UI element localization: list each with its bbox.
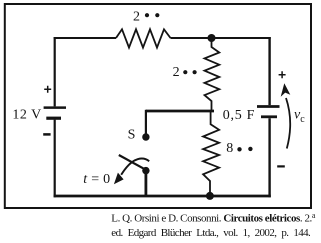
label R3 dots xyxy=(237,147,241,151)
svg-text:2: 2 xyxy=(133,10,140,25)
capacitor C1 plate short xyxy=(261,115,277,118)
vc arrow curve xyxy=(286,98,290,149)
switch blade xyxy=(119,155,146,170)
wire left upper xyxy=(54,37,56,106)
svg-text:12 V: 12 V xyxy=(12,107,41,122)
wire switch to bottom xyxy=(144,171,147,197)
svg-text:c: c xyxy=(300,114,305,125)
wire right lower xyxy=(268,118,270,197)
svg-text:L. Q. Orsini e D. Consonni. Ci: L. Q. Orsini e D. Consonni. Circuitos el… xyxy=(111,211,316,225)
battery minus sign xyxy=(43,133,50,136)
wire bottom xyxy=(54,195,271,198)
svg-text:t = 0: t = 0 xyxy=(83,172,110,187)
svg-text:ed. Edgard Blücher Ltda., vol.: ed. Edgard Blücher Ltda., vol. 1, 2002, … xyxy=(111,227,311,239)
resistor R1 (2 ohm, top) xyxy=(116,29,171,47)
battery V1 plate short xyxy=(46,117,61,120)
capacitor C1 plate long xyxy=(257,105,280,108)
svg-text:S: S xyxy=(128,127,136,142)
battery V1 plate long xyxy=(44,106,66,109)
wire left lower xyxy=(54,120,56,198)
switch S upper contact dot xyxy=(142,133,149,140)
switch arrowhead xyxy=(114,173,124,185)
capacitor plus sign xyxy=(279,71,286,78)
resistor R3 (8 ohm, vertical) xyxy=(203,111,219,196)
vc arrowhead xyxy=(281,83,291,97)
wire top xyxy=(54,37,271,39)
resistor R2 (2 ohm, vertical) xyxy=(205,38,220,111)
svg-text:2: 2 xyxy=(173,65,180,80)
wire switch branch horizontal xyxy=(146,110,214,113)
label R1 dots xyxy=(145,13,149,17)
node A junction dot top xyxy=(208,34,216,42)
svg-text:0,5 F: 0,5 F xyxy=(223,108,255,123)
capacitor minus sign xyxy=(277,165,285,167)
switch lower contact dot xyxy=(142,167,149,174)
wire right upper xyxy=(268,37,270,105)
node B junction dot bottom xyxy=(206,192,214,200)
wire S vertical xyxy=(145,110,147,134)
battery plus sign xyxy=(44,86,51,93)
switch motion arc xyxy=(121,159,149,175)
svg-text:8: 8 xyxy=(226,141,233,156)
label R2 dots xyxy=(183,70,187,74)
